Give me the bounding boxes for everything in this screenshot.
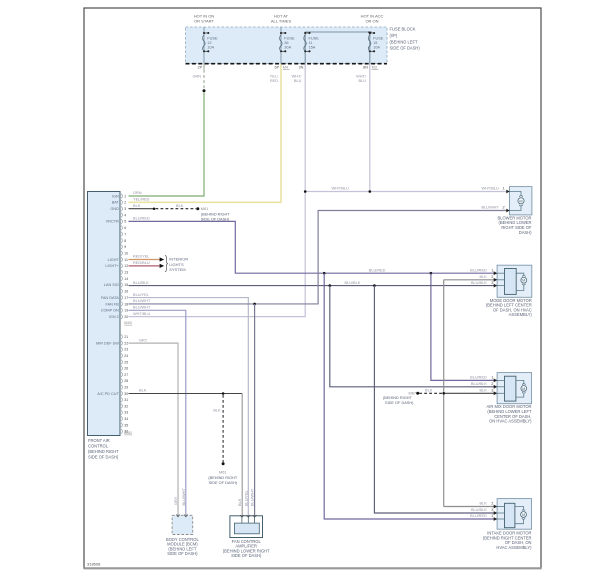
- wire WHT/BLU horizontal to blower motor pin 1: [305, 191, 506, 193]
- svg-text:M3: M3: [372, 66, 377, 70]
- connector M50 pins 21-36: [121, 335, 122, 340]
- svg-text:BLU/WHT: BLU/WHT: [133, 299, 151, 303]
- svg-text:BLU/WHT: BLU/WHT: [251, 488, 255, 506]
- svg-text:SIDE OF DASH): SIDE OF DASH): [385, 401, 414, 405]
- svg-text:9: 9: [124, 245, 126, 249]
- svg-text:16: 16: [124, 290, 128, 294]
- svg-text:10A: 10A: [207, 46, 214, 50]
- svg-text:FUSE BLOCK: FUSE BLOCK: [390, 27, 416, 32]
- svg-text:M61: M61: [201, 207, 208, 211]
- svg-text:15: 15: [373, 41, 377, 45]
- svg-text:3: 3: [491, 281, 493, 285]
- ground point M67: [416, 392, 419, 395]
- blower pin 2 arrow: [506, 209, 509, 213]
- svg-text:VRCTR: VRCTR: [106, 220, 119, 224]
- svg-text:IGN 2: IGN 2: [109, 315, 119, 319]
- fuse block pin 2P: [203, 64, 205, 71]
- svg-text:BLU/YEL: BLU/YEL: [133, 293, 150, 297]
- svg-text:(BEHIND RIGHT: (BEHIND RIGHT: [383, 396, 412, 400]
- INTAKE DOOR MOTOR motor symbol M: [521, 512, 527, 518]
- svg-text:BLK: BLK: [480, 502, 488, 506]
- svg-text:22: 22: [124, 341, 128, 345]
- svg-text:5: 5: [124, 220, 126, 224]
- wire BLK dashed to ground M67: [419, 392, 442, 394]
- svg-text:GND: GND: [110, 207, 119, 211]
- svg-text:32: 32: [124, 404, 128, 408]
- svg-text:DASH): DASH): [519, 230, 532, 235]
- MODE DOOR MOTOR internal wiring: [516, 273, 524, 275]
- motor: MODE DOOR MOTOR box: [497, 265, 532, 297]
- svg-text:ALL TIMES: ALL TIMES: [271, 19, 292, 24]
- AIR MIX DOOR MOTOR internal wiring: [516, 380, 524, 383]
- svg-text:(I/P): (I/P): [390, 33, 398, 38]
- svg-text:A/C PD CUT: A/C PD CUT: [97, 392, 119, 396]
- fuse F11 15A: [304, 32, 306, 64]
- svg-text:LAN SIG: LAN SIG: [104, 283, 119, 287]
- svg-text:17: 17: [124, 296, 128, 300]
- ground point M61: [196, 207, 199, 210]
- junction BLU/RED to air mix motor: [430, 272, 433, 275]
- wire GRN solid run: [129, 92, 205, 196]
- svg-text:35: 35: [124, 423, 128, 427]
- svg-text:RED/BLU: RED/BLU: [133, 261, 150, 265]
- svg-text:25: 25: [124, 360, 128, 364]
- connector M49 pins 1-20: [121, 194, 122, 199]
- svg-text:MIR DEF SW: MIR DEF SW: [96, 341, 119, 345]
- svg-text:BLK: BLK: [425, 389, 433, 393]
- svg-text:2P: 2P: [197, 66, 202, 70]
- wire BLU/WHT: pin 19 COMP ON to BCM: [129, 310, 186, 515]
- AIR MIX DOOR MOTOR pin 2: [497, 386, 504, 388]
- MODE DOOR MOTOR pin 3: [497, 285, 504, 287]
- svg-text:318508: 318508: [87, 562, 101, 567]
- svg-text:BLK: BLK: [176, 204, 184, 208]
- svg-text:YEL/RED: YEL/RED: [133, 198, 150, 202]
- svg-text:BLU: BLU: [294, 79, 302, 83]
- svg-text:M50: M50: [124, 431, 131, 435]
- svg-text:2: 2: [491, 275, 493, 279]
- svg-text:HVAC ASSEMBLY): HVAC ASSEMBLY): [496, 545, 532, 550]
- fan amp pin at x=241.9: [241, 516, 243, 523]
- BCM pin marks: [176, 514, 180, 516]
- AIR MIX DOOR MOTOR pin 3: [497, 392, 504, 394]
- wire WHT/BLU: fuse 15 down: [369, 65, 371, 192]
- fuse block pin 3N: [304, 64, 306, 71]
- page frame border: [84, 8, 541, 568]
- svg-text:10A: 10A: [373, 46, 380, 50]
- junction BLU/RED to intake motor: [323, 272, 326, 275]
- svg-text:34: 34: [124, 417, 128, 421]
- svg-text:COMP ON: COMP ON: [101, 309, 119, 313]
- svg-text:SIDE OF DASH): SIDE OF DASH): [390, 46, 421, 51]
- fuse block (I/P) box: [186, 27, 388, 64]
- svg-text:31: 31: [124, 398, 128, 402]
- svg-text:8: 8: [124, 239, 126, 243]
- junction BLK at M67: [442, 392, 445, 395]
- svg-text:GRN: GRN: [192, 75, 201, 79]
- svg-text:ASSEMBLY): ASSEMBLY): [509, 312, 533, 317]
- motor: BLOWER MOTOR: [510, 187, 532, 215]
- wire BLU/WHT branch down to fan control amplifier: [254, 304, 256, 523]
- svg-text:GRY: GRY: [174, 496, 178, 505]
- wire BLK to intake door motor pin 2: [444, 506, 495, 508]
- wire BLK to mode door motor pin 2: [444, 279, 495, 281]
- svg-text:2: 2: [502, 206, 504, 210]
- svg-text:(BEHIND RIGHT: (BEHIND RIGHT: [208, 476, 237, 480]
- wire BLU/YEL: pin 17 FAN DATA to fan control amplifier: [129, 298, 249, 523]
- svg-text:BAT: BAT: [112, 201, 120, 205]
- blower internal wiring: [510, 192, 522, 196]
- svg-text:2: 2: [491, 502, 493, 506]
- svg-text:BLU/RED: BLU/RED: [470, 514, 487, 518]
- fuse block pin 8N connector M3: [369, 64, 371, 71]
- junction BLU/WHT to fan amp: [253, 303, 256, 306]
- svg-text:1: 1: [491, 376, 493, 380]
- fuse block pin 6P connector M4: [280, 64, 282, 71]
- wire RED/YEL: pin 11 LIGHT to interior lights system: [129, 259, 160, 261]
- svg-text:27: 27: [124, 373, 128, 377]
- svg-text:15A: 15A: [309, 46, 316, 50]
- svg-text:6P: 6P: [274, 66, 279, 70]
- svg-text:14: 14: [124, 277, 128, 281]
- MODE DOOR MOTOR motor symbol M: [521, 277, 527, 283]
- svg-text:BLU/BLK: BLU/BLK: [345, 281, 361, 285]
- svg-text:FAN DATA: FAN DATA: [101, 296, 119, 300]
- blower motor symbol M: [518, 198, 524, 204]
- wire GRN: fuse 12 to pin 1 IGN: [203, 65, 205, 90]
- svg-text:15: 15: [124, 283, 128, 287]
- module FAN CONTROL AMPLIFIER: [230, 516, 263, 538]
- svg-text:FRONT AIR: FRONT AIR: [88, 438, 110, 443]
- svg-text:GRN: GRN: [133, 191, 142, 195]
- AIR MIX DOOR MOTOR pin 1: [497, 379, 504, 381]
- AIR MIX DOOR MOTOR actuator block: [505, 376, 516, 401]
- svg-text:SIDE OF DASH): SIDE OF DASH): [231, 553, 262, 558]
- svg-text:ON HVAC ASSEMBLY): ON HVAC ASSEMBLY): [489, 419, 532, 424]
- INTAKE DOOR MOTOR internal wiring: [515, 507, 524, 510]
- wire BLU/RED branch to intake door motor pin 1: [324, 273, 494, 519]
- svg-text:1: 1: [491, 268, 493, 272]
- wire BLK vertical bus: [443, 280, 445, 507]
- INTAKE DOOR MOTOR actuator block: [505, 503, 515, 527]
- AIR MIX DOOR MOTOR motor symbol M: [521, 386, 527, 392]
- svg-text:FUSE: FUSE: [309, 36, 320, 40]
- svg-text:7: 7: [124, 232, 126, 236]
- blower pin 1 arrow: [506, 190, 509, 194]
- MODE DOOR MOTOR pin 1: [497, 272, 504, 274]
- junction BLU/BLK to intake motor: [373, 284, 376, 287]
- splice dot on GRN wire: [203, 89, 206, 92]
- MODE DOOR MOTOR actuator block: [505, 269, 517, 295]
- svg-text:M: M: [522, 513, 525, 517]
- svg-text:8N: 8N: [363, 66, 368, 70]
- svg-text:BLK: BLK: [133, 204, 141, 208]
- svg-text:20: 20: [124, 315, 128, 319]
- fuse block bottom dashed connector line: [186, 63, 388, 65]
- svg-text:BLK: BLK: [480, 275, 488, 279]
- svg-text:18: 18: [124, 302, 128, 306]
- wire BLU/BLK: pin 15 LAN SIG to door motors: [129, 285, 495, 287]
- junction BLK to ground: [222, 392, 225, 395]
- svg-text:3: 3: [491, 389, 493, 393]
- svg-text:BLU/RED: BLU/RED: [470, 376, 487, 380]
- svg-text:M: M: [519, 199, 522, 203]
- svg-text:28: 28: [124, 379, 128, 383]
- svg-text:BLU/WHT: BLU/WHT: [182, 488, 186, 506]
- junction WHT/BLU x fuse15: [369, 190, 372, 193]
- svg-text:M4: M4: [283, 66, 289, 70]
- svg-text:FAN FB: FAN FB: [106, 302, 120, 306]
- svg-text:BLU/RED: BLU/RED: [133, 217, 150, 221]
- svg-text:M49: M49: [124, 321, 131, 325]
- svg-text:24: 24: [124, 354, 128, 358]
- svg-text:WHT/BLU: WHT/BLU: [482, 187, 500, 191]
- svg-text:SIDE OF DASH): SIDE OF DASH): [88, 455, 119, 460]
- svg-text:SIDE OF DASH): SIDE OF DASH): [209, 481, 238, 485]
- svg-text:3: 3: [491, 508, 493, 512]
- svg-text:BLK: BLK: [139, 389, 147, 393]
- motor: INTAKE DOOR MOTOR box: [497, 499, 531, 530]
- wire BLU/RED branch to air mix door motor pin 1: [431, 273, 495, 380]
- module FRONT AIR CONTROL box: [88, 192, 121, 436]
- junction BLU/BLK to air mix motor: [329, 284, 332, 287]
- svg-text:13: 13: [124, 271, 128, 275]
- ACC feed arrow: [368, 32, 372, 36]
- svg-text:BLU/BLK: BLU/BLK: [471, 382, 487, 386]
- svg-text:BLU/BLK: BLU/BLK: [133, 281, 149, 285]
- svg-text:(BEHIND RIGHT: (BEHIND RIGHT: [201, 212, 230, 216]
- svg-text:6: 6: [124, 226, 126, 230]
- svg-text:26: 26: [124, 367, 128, 371]
- svg-text:23: 23: [124, 348, 128, 352]
- svg-text:RED/YEL: RED/YEL: [133, 255, 150, 259]
- svg-text:11: 11: [124, 258, 128, 262]
- svg-text:10: 10: [124, 251, 128, 255]
- svg-text:FUSE: FUSE: [284, 36, 295, 40]
- ground point M61 lower: [222, 462, 225, 465]
- svg-text:BLU/WHT: BLU/WHT: [482, 206, 500, 210]
- svg-text:29: 29: [124, 386, 128, 390]
- wire YEL/RED: fuse 36 to pin 2 BAT: [129, 65, 282, 203]
- ACC feed bus inside fuse block: [305, 32, 370, 64]
- svg-text:OR ON: OR ON: [365, 19, 378, 24]
- svg-text:BLU/YEL: BLU/YEL: [244, 489, 248, 506]
- svg-text:36: 36: [284, 41, 288, 45]
- svg-text:FUSE: FUSE: [373, 36, 384, 40]
- svg-text:WHT/BLU: WHT/BLU: [133, 312, 151, 316]
- svg-text:FUSE: FUSE: [207, 36, 218, 40]
- svg-text:1: 1: [502, 187, 504, 191]
- svg-text:21: 21: [124, 335, 128, 339]
- brace to interior lights system: [165, 255, 168, 272]
- svg-text:BLU/WHT: BLU/WHT: [133, 306, 151, 310]
- svg-text:3: 3: [124, 207, 126, 211]
- svg-text:3N: 3N: [298, 66, 303, 70]
- INTAKE DOOR MOTOR pin 1: [497, 518, 504, 520]
- INTAKE DOOR MOTOR pin 2: [497, 506, 504, 508]
- svg-text:BLU: BLU: [359, 79, 367, 83]
- svg-text:CONTROL: CONTROL: [88, 443, 109, 448]
- svg-text:(BEHIND RIGHT: (BEHIND RIGHT: [88, 449, 119, 454]
- wire BLU/RED: pin 5 VRCTR to door motors: [129, 221, 495, 273]
- wire BLK dashed down to ground M61: [222, 395, 224, 462]
- fuse F12 10A: [203, 27, 205, 64]
- wire BLU/WHT: pin 18 FAN FB to blower motor pin 2 and fan amp: [129, 211, 507, 304]
- wire RED/BLU: pin 12 LIGHT+ to interior lights system: [129, 265, 160, 267]
- fuse F36 30A: [280, 27, 282, 64]
- svg-text:1: 1: [124, 194, 126, 198]
- svg-text:OR START: OR START: [194, 19, 214, 24]
- svg-text:2: 2: [491, 382, 493, 386]
- wire WHT/BLU: fuse 11 down to pin 20 IGN 2: [129, 65, 306, 317]
- svg-text:2: 2: [124, 201, 126, 205]
- MODE DOOR MOTOR pin 2: [497, 279, 504, 281]
- svg-text:30: 30: [124, 392, 128, 396]
- fan amp inner block: [234, 523, 259, 534]
- wire BLU/BLK branch to air mix door motor pin 2: [330, 286, 495, 387]
- junction WHT/BLU x fuse11: [304, 190, 307, 193]
- fan amp pin at x=248.3: [247, 516, 249, 523]
- svg-text:12: 12: [124, 264, 128, 268]
- svg-text:BLK: BLK: [213, 409, 221, 413]
- wire BLK: pin 3 GND to ground M61: [129, 208, 155, 210]
- wire GRY: pin 22 MIR DEF SW to BCM: [129, 343, 179, 515]
- svg-text:LIGHT+: LIGHT+: [105, 264, 119, 268]
- svg-text:M: M: [522, 279, 525, 283]
- svg-text:M: M: [522, 387, 525, 391]
- motor: AIR MIX DOOR MOTOR box: [497, 373, 531, 404]
- fan amp pin at x=254.6: [254, 516, 256, 523]
- svg-text:BLK: BLK: [480, 389, 488, 393]
- svg-text:BLU/BLK: BLU/BLK: [471, 281, 487, 285]
- svg-text:19: 19: [124, 309, 128, 313]
- splice on BLK: [153, 207, 156, 210]
- svg-text:WHT/BLU: WHT/BLU: [332, 186, 350, 190]
- wire BLK to air mix door motor pin 3: [444, 392, 495, 394]
- wire BLU/BLK branch to intake door motor pin 3: [374, 286, 494, 513]
- wire BLK dashed to M61: [156, 208, 197, 210]
- svg-text:BLU/RED: BLU/RED: [470, 268, 487, 272]
- svg-text:IGN: IGN: [112, 194, 119, 198]
- wire BLK: pin 30 A/C PD CUT to fan amp and ground M61: [129, 393, 243, 395]
- svg-text:11: 11: [309, 41, 313, 45]
- fuse F15 10A: [369, 32, 371, 64]
- svg-text:LIGHT: LIGHT: [108, 258, 120, 262]
- svg-text:33: 33: [124, 411, 128, 415]
- svg-text:M61: M61: [219, 471, 226, 475]
- INTAKE DOOR MOTOR pin 3: [497, 512, 504, 514]
- svg-text:BLK: BLK: [238, 498, 242, 506]
- svg-text:30A: 30A: [284, 46, 291, 50]
- svg-text:BLU/BLK: BLU/BLK: [471, 508, 487, 512]
- svg-text:SIDE OF DASH): SIDE OF DASH): [167, 551, 198, 556]
- svg-text:GRY: GRY: [139, 338, 148, 342]
- svg-text:RED: RED: [270, 79, 278, 83]
- module BODY CONTROL MODULE (BCM): [172, 515, 193, 534]
- svg-text:12: 12: [207, 41, 211, 45]
- svg-text:SYSTEM: SYSTEM: [169, 267, 185, 272]
- svg-text:1: 1: [491, 514, 493, 518]
- svg-text:BLU/RED: BLU/RED: [369, 268, 386, 272]
- svg-text:(BEHIND LEFT: (BEHIND LEFT: [390, 39, 418, 44]
- svg-text:4: 4: [124, 213, 126, 217]
